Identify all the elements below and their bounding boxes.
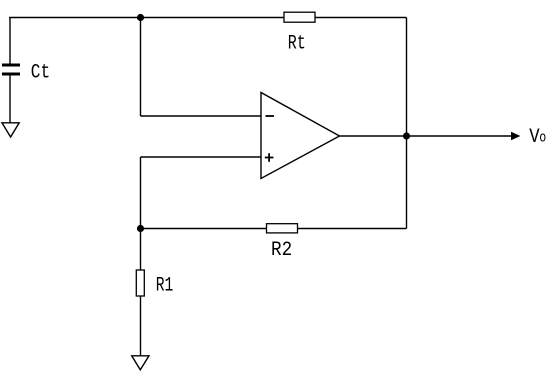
node A junction dot (top rail) xyxy=(137,14,144,21)
svg-text:Rt: Rt xyxy=(288,33,306,56)
resistor R2 xyxy=(267,224,298,233)
wire right column vertical (x=406.5) from top rail down to bottom rail xyxy=(406,18,408,229)
node output junction dot xyxy=(403,132,410,139)
node Vo label xyxy=(529,126,546,149)
arrowhead at Vo xyxy=(511,132,521,140)
wire to non-inverting input xyxy=(141,156,262,158)
wire bottom rail (node B to right column) xyxy=(141,228,407,230)
ground (bottom, under R1) xyxy=(132,356,149,370)
node B junction dot xyxy=(137,225,144,232)
pin label - (inverting input) xyxy=(266,115,275,117)
wire from node A down to inverting input level xyxy=(140,18,142,117)
pin label + (non-inverting input) xyxy=(265,153,274,162)
svg-text:R2: R2 xyxy=(271,239,292,262)
ground (left, under Ct) xyxy=(2,123,19,137)
wire node B down to R1 xyxy=(140,229,142,271)
wire top horizontal rail from Ct to right column xyxy=(9,17,407,19)
wire op-amp output to Vo arrow xyxy=(340,135,513,137)
svg-text:V: V xyxy=(529,126,539,149)
svg-text:Ct: Ct xyxy=(31,62,50,85)
op-amp U1 xyxy=(261,93,340,179)
wire from non-inverting input down to node B xyxy=(140,157,142,229)
svg-text:o: o xyxy=(539,131,546,147)
resistor Rt xyxy=(284,12,315,22)
wire to inverting input xyxy=(141,115,262,117)
wire R1 to ground xyxy=(140,296,142,356)
resistor R1 xyxy=(136,270,144,296)
capacitor Ct xyxy=(2,64,20,76)
wire capacitor bottom lead xyxy=(9,76,11,124)
wire capacitor top lead xyxy=(9,18,11,65)
svg-text:R1: R1 xyxy=(156,275,174,298)
